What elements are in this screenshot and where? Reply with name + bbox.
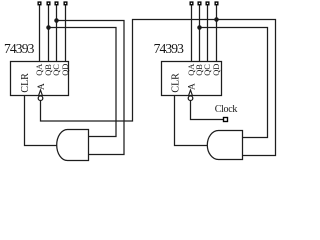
svg-text:QC: QC [203, 64, 212, 76]
svg-text:QD: QD [212, 64, 221, 76]
svg-text:A: A [187, 83, 197, 90]
svg-text:QC: QC [52, 64, 61, 76]
svg-text:CLR: CLR [171, 73, 182, 93]
svg-text:CLR: CLR [20, 73, 31, 93]
svg-text:A: A [37, 83, 47, 90]
svg-text:QA: QA [35, 64, 44, 76]
svg-text:QD: QD [61, 64, 70, 76]
svg-text:Clock: Clock [215, 104, 238, 115]
svg-text:74393: 74393 [154, 41, 185, 56]
svg-text:74393: 74393 [4, 41, 35, 56]
